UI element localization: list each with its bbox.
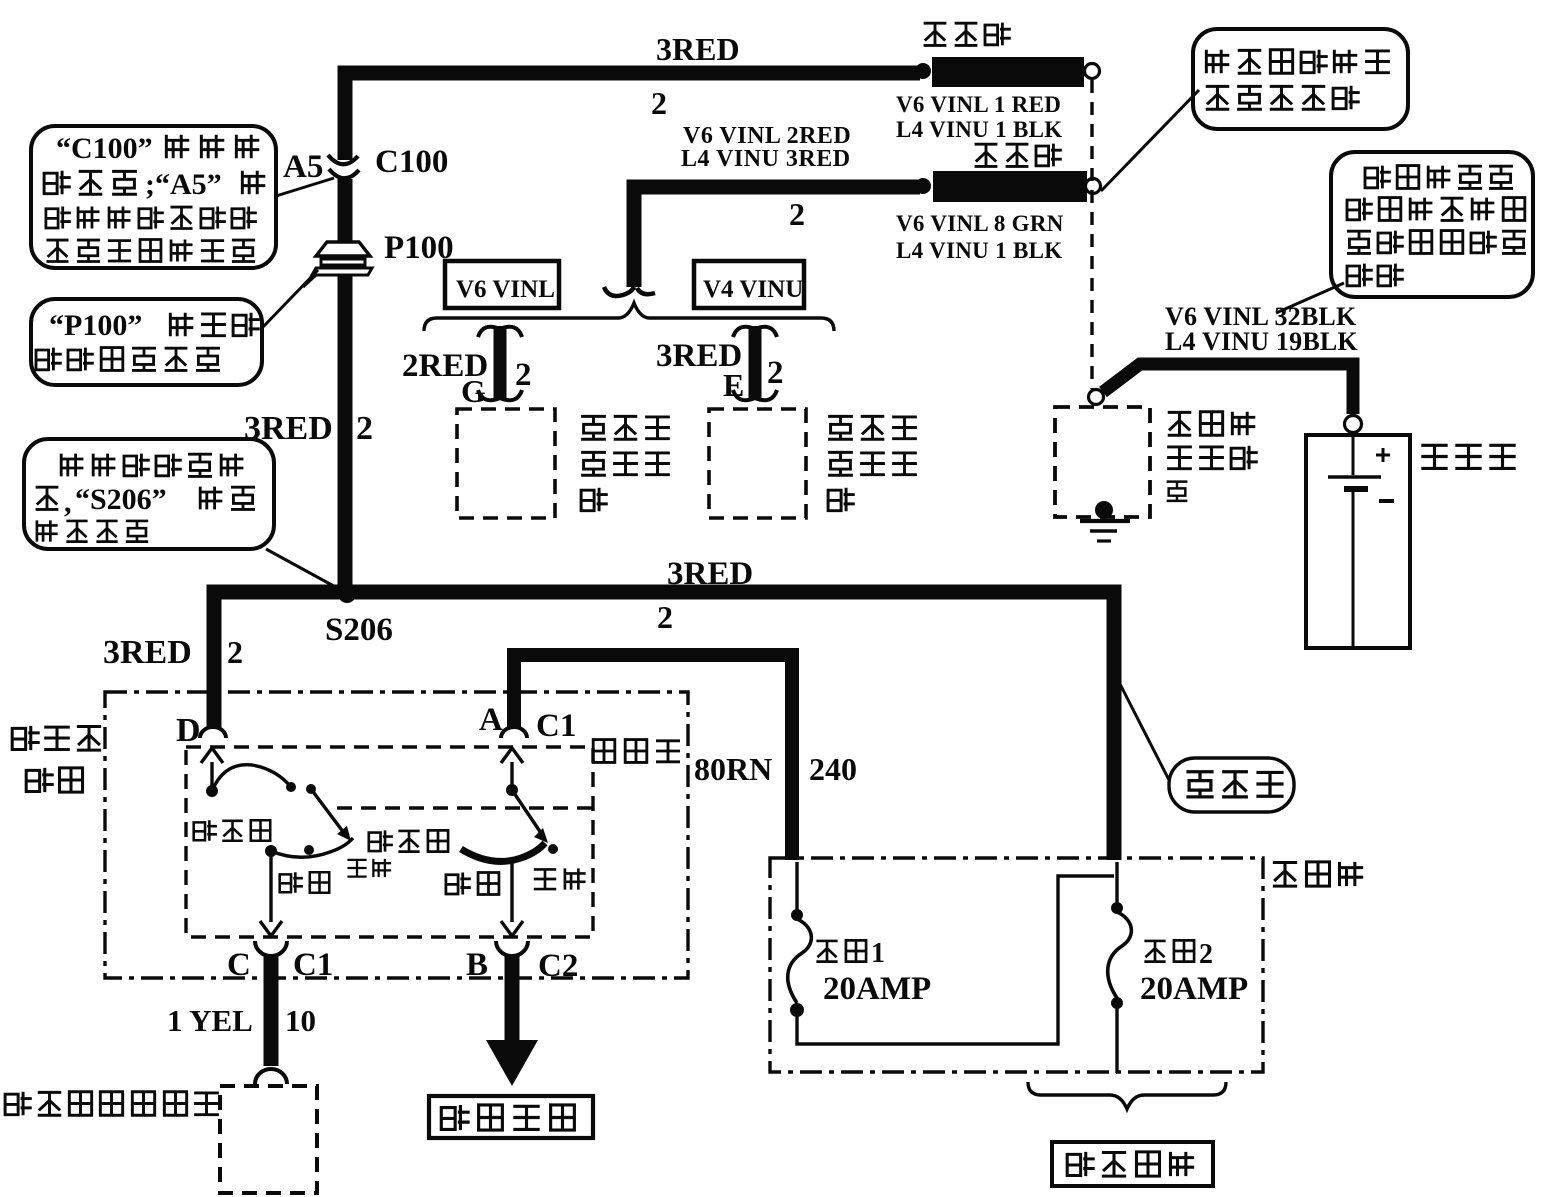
label constant power 常通电	[1186, 772, 1283, 797]
splice S206 junction dot	[338, 585, 356, 603]
starter solenoid ground stud	[1095, 501, 1113, 519]
left power distribution dash-dot box	[105, 692, 688, 978]
eyelet at starter solenoid stud	[1089, 390, 1104, 405]
svg-text:C: C	[227, 947, 251, 983]
label see fuse box 见熔丝盒	[1067, 1152, 1194, 1176]
svg-text:3RED: 3RED	[244, 410, 333, 447]
down arrow to terminal B	[501, 862, 523, 936]
svg-text:“P100”: “P100”	[49, 309, 142, 342]
svg-text:L4 VINU 1 BLK: L4 VINU 1 BLK	[896, 117, 1062, 142]
callout: constant power 常通电	[1169, 758, 1294, 812]
svg-text:V6 VINL: V6 VINL	[456, 276, 555, 303]
svg-text:20AMP: 20AMP	[1140, 971, 1248, 1007]
switch position 驻车 right	[446, 872, 499, 894]
connector dome at dimmer switch	[255, 1069, 287, 1084]
callout5 line2 发动机所使用	[1347, 198, 1525, 221]
svg-text:V4 VINU: V4 VINU	[703, 276, 803, 303]
relay1 label 扇继电	[581, 452, 670, 475]
curl left bottom G	[478, 390, 500, 400]
callout1 text C100/A5 note	[44, 132, 265, 262]
svg-text:2: 2	[227, 634, 243, 670]
svg-text:S206: S206	[325, 612, 393, 648]
wire to exterior lights	[505, 954, 520, 1040]
svg-text:G: G	[461, 373, 486, 409]
relay2 label 冷却风	[828, 416, 917, 439]
svg-text:2: 2	[767, 355, 784, 391]
fuse 2 top lead	[1115, 862, 1118, 903]
wire 1 YEL to headlamp dimmer switch	[264, 954, 279, 1066]
battery cell symbol	[1328, 435, 1394, 646]
callout: P100 grommet code note	[31, 299, 262, 385]
wiper pivot dot D	[206, 785, 218, 797]
label light switch 灯开关	[593, 740, 680, 763]
wiper pivot dot A	[506, 784, 518, 796]
relay1 label 器	[581, 488, 608, 512]
fusible link 1 (易熔线)	[932, 57, 1084, 87]
terminal eyelet of fusible link 1	[1085, 64, 1100, 79]
switch position 关闭 right	[534, 868, 586, 889]
down arrow to terminal C	[260, 851, 282, 936]
callout: fusible links on same screw	[1193, 29, 1408, 129]
label fusible link 1 易熔线	[924, 23, 1011, 46]
leader line callout3 to S206	[266, 549, 341, 590]
svg-text:L4 VINU 19BLK: L4 VINU 19BLK	[1165, 327, 1358, 356]
svg-text:20AMP: 20AMP	[823, 971, 931, 1007]
leader line callout1 to C100	[276, 178, 334, 196]
see exterior lights box	[429, 1096, 593, 1138]
connector dome at terminal D	[200, 727, 226, 738]
label 电磁线	[1167, 446, 1258, 470]
big arrowhead 见车外灯	[486, 1040, 538, 1086]
fuse 1 top lead	[795, 862, 798, 910]
callout3 text S206 note	[36, 454, 255, 542]
switch position 驻车 left	[280, 872, 330, 893]
svg-text:C100: C100	[375, 144, 448, 180]
curl right bottom E	[755, 390, 777, 400]
inner dashed divider	[337, 806, 593, 809]
svg-text:“S206”: “S206”	[75, 483, 167, 516]
relay2 label 扇继电	[828, 452, 917, 475]
svg-text:3RED: 3RED	[656, 31, 740, 67]
wire 3RED vertical through P100 grommet to S206	[338, 178, 353, 588]
leader line callout4 to screw joint	[1101, 90, 1199, 191]
switch wiper terminal D: up arrow	[201, 748, 223, 792]
wire V6 VINL 2RED / L4 VINU 3RED branch to fusible link 2	[634, 187, 920, 287]
svg-text:P100: P100	[384, 230, 454, 266]
see fuse box outline	[1052, 1142, 1213, 1186]
wire 2RED stub to cooling fan relay terminal G	[494, 326, 507, 399]
svg-text:L4 VINU 1 BLK: L4 VINU 1 BLK	[896, 238, 1062, 263]
fuse 2 label 熔丝2	[1144, 939, 1213, 970]
svg-text:2: 2	[356, 410, 373, 447]
connector dome at terminal A	[501, 727, 527, 738]
callout4 line2 上的易熔线	[1206, 86, 1360, 110]
eyelet at battery positive terminal	[1345, 416, 1362, 433]
wire V6 VINL 32BLK battery cable	[1103, 364, 1353, 414]
svg-text:“C100”: “C100”	[56, 132, 153, 165]
contact dot 驻车 row	[304, 845, 314, 855]
curl left top G	[478, 327, 500, 337]
engine variant box V6 VINL	[445, 261, 559, 308]
relay1 label 冷却风	[581, 416, 670, 439]
callout4 line1 接在同一螺钉	[1206, 50, 1390, 74]
leader line callout5 to wire label	[1276, 283, 1344, 313]
label battery 蓄电池	[1421, 445, 1515, 468]
wire 3RED top run from C100 to fusible link 1	[345, 73, 920, 164]
wiper arc left switch	[212, 765, 291, 791]
svg-text:A: A	[479, 702, 503, 738]
connector C100 lower half	[329, 169, 359, 178]
curl right top G	[500, 327, 522, 337]
connector cup at terminal B	[496, 941, 528, 956]
svg-text:C2: C2	[538, 948, 578, 984]
callout: S206 splice note	[24, 439, 274, 549]
svg-text:V6 VINL 1 RED: V6 VINL 1 RED	[896, 92, 1061, 117]
svg-text:;“A5”: ;“A5”	[145, 168, 222, 201]
wiper travel line to off position	[311, 789, 344, 833]
svg-text:C1: C1	[293, 947, 333, 983]
label fusible link 2 易熔线	[975, 144, 1062, 167]
connector curl right at branch wire end	[637, 288, 655, 294]
switch position 前照灯 left	[194, 820, 271, 841]
battery 蓄电池 box	[1306, 435, 1410, 648]
svg-text:,: ,	[64, 486, 72, 519]
callout: different wire gauges	[1331, 152, 1533, 297]
wire 3RED stub to cooling fan relay terminal E	[749, 326, 762, 399]
switch wiper terminal A: up arrow	[501, 748, 523, 791]
svg-text:2: 2	[1199, 939, 1213, 970]
leader line callout6 to constant power wire	[1120, 684, 1169, 780]
svg-text:240: 240	[809, 751, 857, 787]
grommet P100	[303, 242, 372, 287]
svg-text:D: D	[176, 712, 201, 749]
switch position 前照灯 right	[369, 830, 448, 851]
fuse 1 output routing to fuse 2 node	[797, 876, 1114, 1044]
svg-text:2: 2	[657, 599, 673, 635]
contact dot 关闭 right	[548, 844, 558, 854]
curl left bottom E	[733, 390, 755, 400]
fuse 2 output lead	[1115, 1008, 1118, 1073]
callout5 line1 不同类型的	[1365, 166, 1513, 189]
label 分配	[26, 768, 82, 792]
terminal eyelet of fusible link 2	[1086, 179, 1101, 194]
callout: C100 connector code note	[31, 126, 276, 268]
contact dot 前照灯 row	[265, 845, 277, 857]
curl right bottom G	[500, 390, 522, 400]
curl left top E	[733, 327, 755, 337]
callout2 text P100 note	[36, 309, 260, 370]
fusible link 2 (易熔线)	[933, 171, 1087, 202]
connector cup at terminal C	[255, 941, 287, 956]
svg-text:V6 VINL 8 GRN: V6 VINL 8 GRN	[896, 211, 1064, 236]
starter solenoid coil (dashed box)	[1055, 407, 1150, 517]
engine variant box V4 VINU	[694, 261, 804, 308]
label 左电源	[12, 726, 101, 750]
fuse 2 top node	[1111, 902, 1123, 914]
svg-text:1: 1	[871, 938, 885, 969]
wire 3RED main distribution run: D terminal to fuse box	[214, 592, 1114, 860]
junction dot at fusible link 2 input	[915, 178, 931, 194]
label 起动机	[1168, 412, 1256, 436]
label see exterior lights 见车外灯	[441, 1105, 574, 1130]
fuse 1 element squiggle	[788, 919, 812, 1003]
cooling fan relay 2 (dashed box)	[709, 409, 806, 518]
bold contact arc 驻车 right switch	[461, 843, 545, 861]
underbrace to see fuse box	[1028, 1082, 1226, 1109]
fuse 2 element squiggle	[1108, 912, 1132, 998]
relay2 label 器	[828, 488, 855, 512]
svg-text:C1: C1	[536, 708, 576, 744]
fuse 1 label 熔丝1	[816, 938, 885, 969]
label 圈	[1167, 482, 1188, 501]
contact dot position 1	[286, 782, 296, 792]
cooling fan relay 1 (dashed box)	[457, 409, 555, 518]
curl right top E	[755, 327, 777, 337]
wire 3RED branch: A terminal to fuse 1	[514, 655, 792, 860]
junction dot at fusible link 1 input	[915, 63, 931, 79]
svg-text:L4 VINU 3RED: L4 VINU 3RED	[681, 146, 851, 172]
connector C100 upper half (pin A5)	[328, 155, 358, 164]
svg-text:3RED: 3RED	[103, 634, 192, 671]
svg-text:10: 10	[285, 1003, 316, 1038]
light switch inner dashed box	[186, 747, 593, 937]
connector curl left at branch wire end	[604, 287, 634, 296]
svg-text:A5: A5	[283, 149, 323, 185]
svg-text:2: 2	[515, 357, 532, 393]
label fuse box 熔丝盒	[1273, 862, 1363, 886]
callout5 line3 的不同规格的	[1347, 231, 1526, 254]
dashed wire: links to common screw	[1090, 80, 1093, 389]
fuse 1 top node	[791, 909, 803, 921]
svg-text:2: 2	[789, 196, 805, 232]
position arc row left switch	[271, 838, 353, 857]
leader line callout2 to P100	[263, 270, 318, 327]
label headlamp dimmer switch 前照灯变光开关	[5, 1092, 219, 1116]
fuse box dash-dot outline	[770, 858, 1263, 1072]
svg-text:E: E	[723, 367, 744, 403]
brace: one of two relays used	[424, 303, 834, 331]
svg-text:80RN: 80RN	[694, 751, 772, 787]
fuse 1 bottom node	[790, 1003, 804, 1017]
fuse 2 bottom node	[1111, 997, 1123, 1009]
callout5 line4 导线	[1347, 264, 1404, 287]
wiper travel line right switch	[512, 790, 541, 833]
svg-text:B: B	[466, 947, 488, 983]
svg-text:3RED: 3RED	[667, 556, 753, 592]
arrowhead to 关闭 position	[337, 826, 351, 841]
contact dot position 2	[306, 784, 316, 794]
svg-text:1 YEL: 1 YEL	[167, 1003, 253, 1038]
ground symbol under starter solenoid	[1080, 521, 1130, 541]
headlamp dimmer switch (dashed box)	[220, 1086, 317, 1193]
switch position 关闭 left	[347, 859, 391, 877]
svg-text:2: 2	[651, 85, 667, 121]
arrowhead to 关闭 position right	[534, 828, 548, 843]
